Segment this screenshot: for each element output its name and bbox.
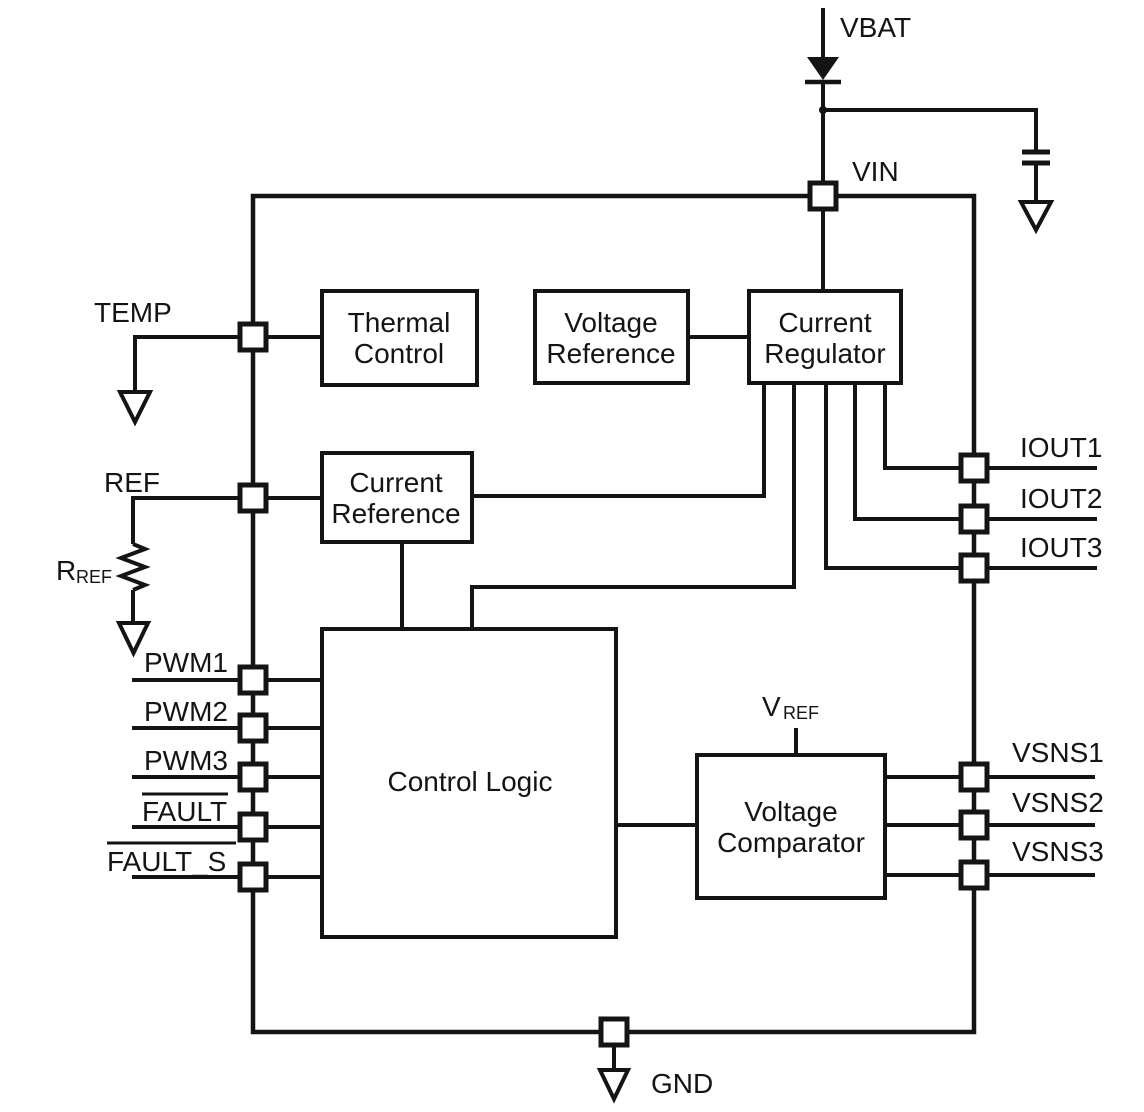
ground symbol (TEMP) bbox=[120, 392, 150, 422]
wire FAULT_S external bbox=[132, 875, 240, 879]
svg-text:Current: Current bbox=[778, 307, 872, 338]
resistor RREF zigzag bbox=[121, 544, 145, 590]
block Control Logic bbox=[322, 629, 616, 937]
svg-text:REF: REF bbox=[783, 703, 819, 723]
wire Current Regulator to IOUT2 bbox=[855, 383, 961, 519]
svg-text:VSNS1: VSNS1 bbox=[1012, 737, 1104, 768]
capacitor C1 top plate bbox=[1022, 150, 1050, 155]
svg-text:Voltage: Voltage bbox=[564, 307, 657, 338]
wire REF external to resistor bbox=[133, 498, 240, 544]
wire Voltage Comparator to VSNS1 bbox=[885, 775, 961, 779]
outer IC boundary box bbox=[253, 196, 974, 1032]
pin VSNS3 bbox=[961, 862, 987, 888]
pin IOUT2 bbox=[961, 506, 987, 532]
svg-text:PWM1: PWM1 bbox=[144, 647, 228, 678]
wire VIN pin to Current Regulator bbox=[821, 209, 825, 291]
svg-text:IOUT2: IOUT2 bbox=[1020, 483, 1102, 514]
wire Current Regulator to Current Reference bbox=[472, 383, 764, 496]
wire Current Reference to Control Logic bbox=[400, 542, 404, 629]
ground symbol (GND) bbox=[600, 1070, 628, 1099]
wire Voltage Reference to Current Regulator bbox=[688, 335, 749, 339]
svg-text:VBAT: VBAT bbox=[840, 12, 911, 43]
wire VSNS2 external bbox=[987, 823, 1095, 827]
svg-text:GND: GND bbox=[651, 1068, 713, 1099]
pin VSNS1 bbox=[961, 764, 987, 790]
pin PWM1 bbox=[240, 667, 266, 693]
block Voltage Comparator bbox=[697, 755, 885, 898]
wire Voltage Comparator to VSNS3 bbox=[885, 873, 961, 877]
wire PWM1 external bbox=[132, 678, 240, 682]
pin FAULT_S bbox=[240, 864, 266, 890]
svg-text:PWM3: PWM3 bbox=[144, 745, 228, 776]
node junction dot bbox=[819, 106, 827, 114]
block Current Reference bbox=[322, 453, 472, 542]
wire junction to capacitor branch bbox=[823, 110, 1036, 150]
svg-text:IOUT3: IOUT3 bbox=[1020, 532, 1102, 563]
block Thermal Control bbox=[322, 291, 477, 385]
capacitor C1 bottom plate bbox=[1022, 161, 1050, 166]
wire TEMP pin to Thermal Control bbox=[266, 335, 322, 339]
svg-text:FAULT_S: FAULT_S bbox=[107, 846, 226, 877]
wire Current Regulator to Control Logic bbox=[472, 383, 794, 629]
wire PWM3 external bbox=[132, 775, 240, 779]
wire Voltage Comparator to VSNS2 bbox=[885, 823, 961, 827]
wire VBAT vertical into diode bbox=[821, 8, 825, 60]
svg-text:Voltage: Voltage bbox=[744, 796, 837, 827]
svg-text:VIN: VIN bbox=[852, 156, 899, 187]
wire PWM1 to Control Logic bbox=[266, 678, 322, 682]
svg-text:V: V bbox=[762, 691, 781, 722]
wire TEMP external bbox=[135, 337, 240, 392]
wire PWM2 external bbox=[132, 726, 240, 730]
wire VSNS3 external bbox=[987, 873, 1095, 877]
pin IOUT1 bbox=[961, 455, 987, 481]
diode D1 cathode bar bbox=[805, 80, 841, 85]
pin VSNS2 bbox=[961, 812, 987, 838]
svg-text:Comparator: Comparator bbox=[717, 827, 865, 858]
svg-text:REF: REF bbox=[76, 567, 112, 587]
wire VREF stub bbox=[794, 728, 798, 755]
pin TEMP bbox=[240, 324, 266, 350]
svg-text:PWM2: PWM2 bbox=[144, 696, 228, 727]
wire capacitor to ground bbox=[1034, 165, 1038, 202]
ground symbol (RREF) bbox=[119, 623, 148, 653]
pin PWM3 bbox=[240, 764, 266, 790]
wire PWM2 to Control Logic bbox=[266, 726, 322, 730]
svg-text:Thermal: Thermal bbox=[348, 307, 451, 338]
pin VIN bbox=[810, 183, 836, 209]
pin PWM2 bbox=[240, 715, 266, 741]
svg-text:R: R bbox=[56, 555, 76, 586]
svg-text:Regulator: Regulator bbox=[764, 338, 885, 369]
svg-text:TEMP: TEMP bbox=[94, 297, 172, 328]
wire resistor to ground bbox=[131, 590, 135, 623]
svg-text:FAULT: FAULT bbox=[142, 796, 227, 827]
pin GND bbox=[601, 1019, 627, 1045]
wire IOUT1 external bbox=[987, 466, 1097, 470]
block Voltage Reference bbox=[535, 291, 688, 383]
wire Current Regulator to IOUT3 bbox=[826, 383, 961, 568]
wire FAULT to Control Logic bbox=[266, 825, 322, 829]
svg-text:Reference: Reference bbox=[546, 338, 675, 369]
wire REF pin to Current Reference bbox=[266, 496, 322, 500]
pin REF bbox=[240, 485, 266, 511]
svg-text:IOUT1: IOUT1 bbox=[1020, 432, 1102, 463]
ground symbol (capacitor) bbox=[1021, 202, 1051, 230]
wire FAULT_S to Control Logic bbox=[266, 875, 322, 879]
wire FAULT external bbox=[132, 825, 240, 829]
svg-text:VSNS2: VSNS2 bbox=[1012, 787, 1104, 818]
svg-text:Current: Current bbox=[349, 467, 443, 498]
svg-text:Reference: Reference bbox=[331, 498, 460, 529]
svg-text:REF: REF bbox=[104, 467, 160, 498]
block Current Regulator bbox=[749, 291, 901, 383]
wire Current Regulator to IOUT1 bbox=[885, 383, 961, 468]
pin FAULT bbox=[240, 814, 266, 840]
wire PWM3 to Control Logic bbox=[266, 775, 322, 779]
svg-text:Control Logic: Control Logic bbox=[388, 766, 553, 797]
wire IOUT3 external bbox=[987, 566, 1097, 570]
wire IOUT2 external bbox=[987, 517, 1097, 521]
pin IOUT3 bbox=[961, 555, 987, 581]
wire VSNS1 external bbox=[987, 775, 1095, 779]
wire GND to ground bbox=[612, 1045, 616, 1070]
wire Control Logic to Voltage Comparator bbox=[616, 823, 697, 827]
svg-text:Control: Control bbox=[354, 338, 444, 369]
diode D1 anode triangle bbox=[807, 57, 839, 80]
svg-text:VSNS3: VSNS3 bbox=[1012, 836, 1104, 867]
wire diode to VIN pin bbox=[821, 82, 825, 183]
